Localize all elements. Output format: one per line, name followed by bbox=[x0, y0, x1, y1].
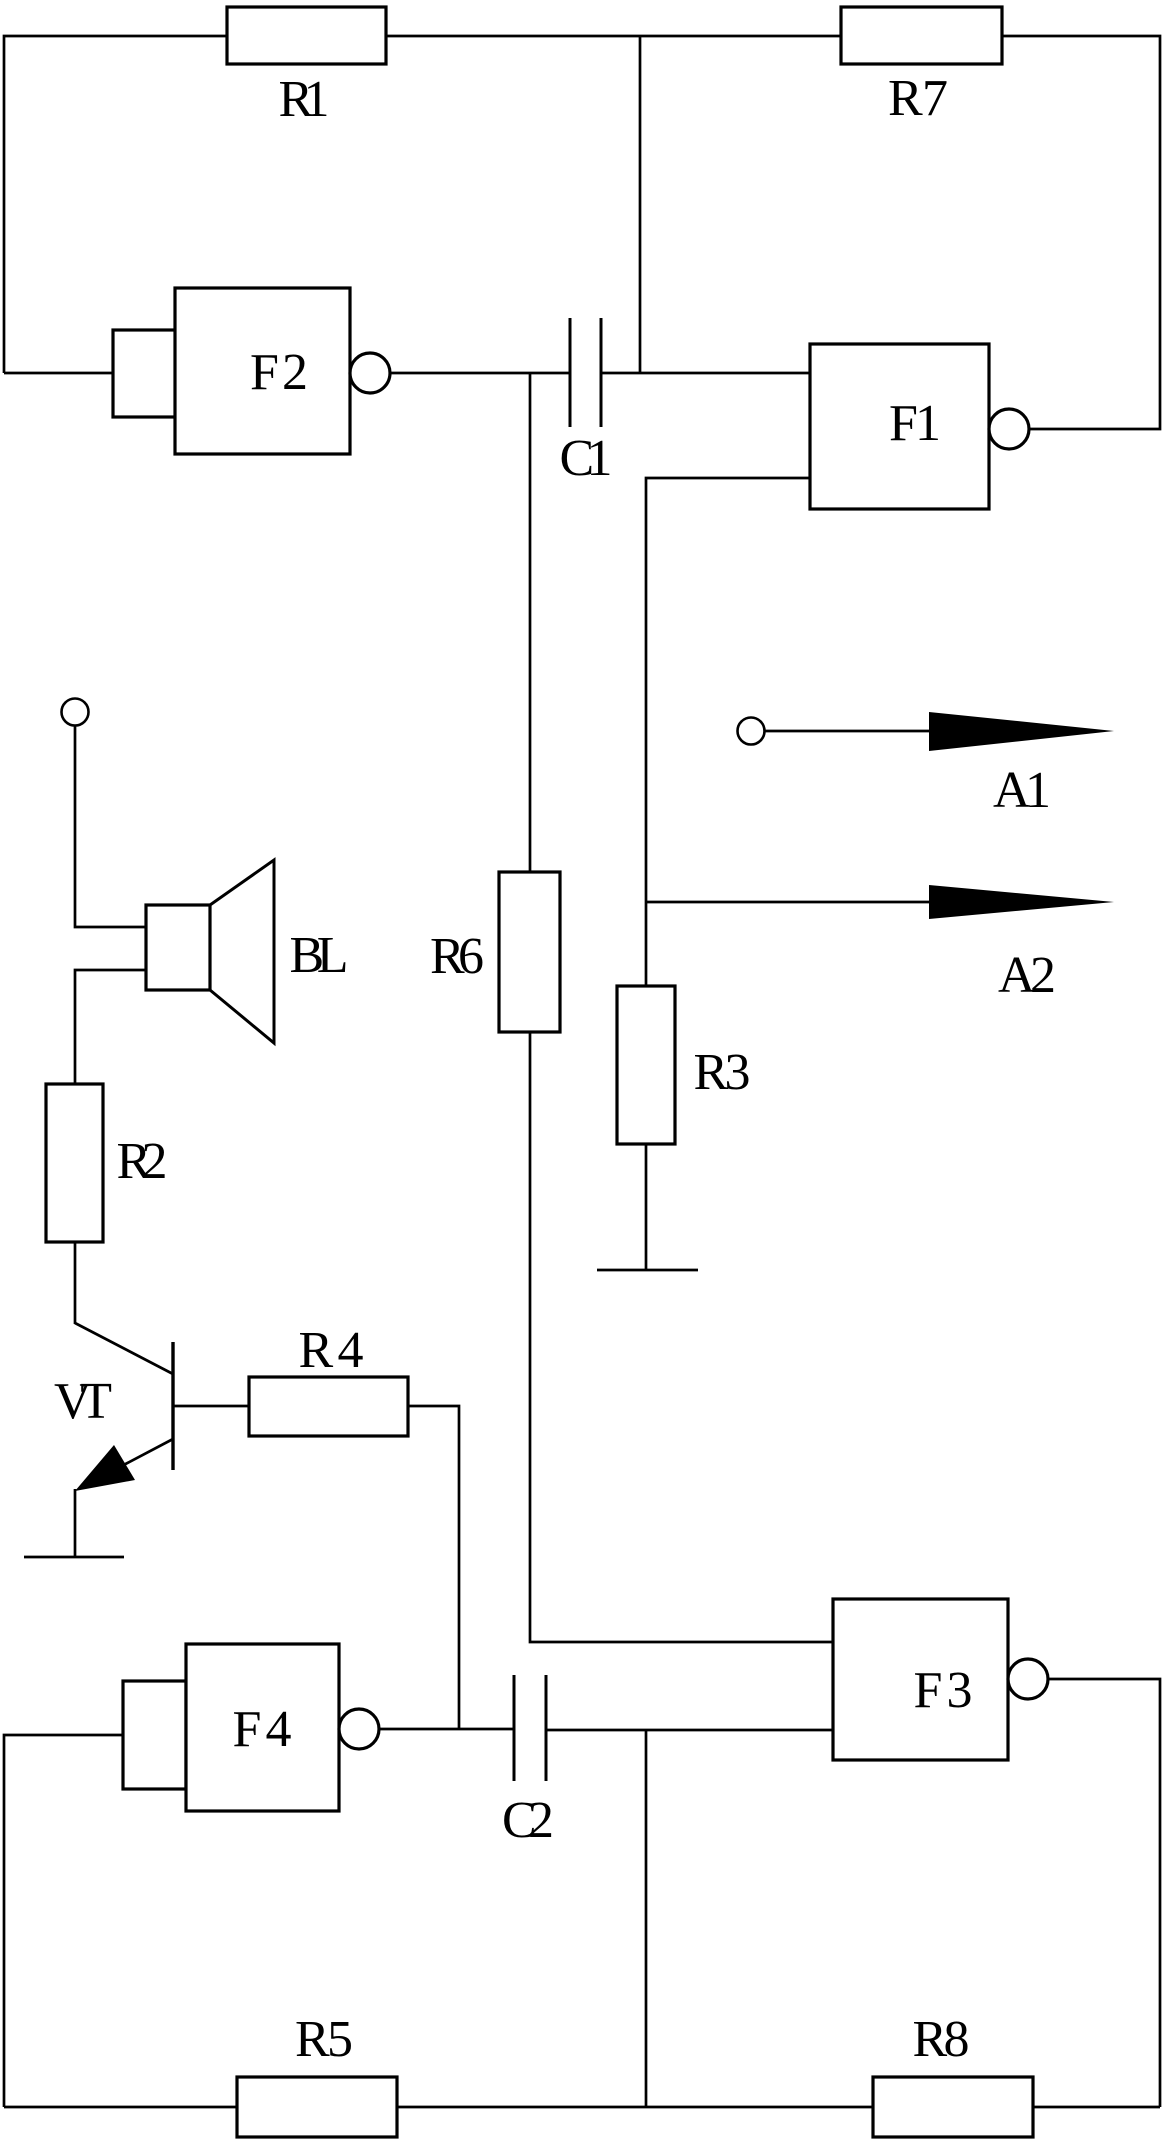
svg-text:R8: R8 bbox=[913, 2011, 970, 2068]
svg-text:BL: BL bbox=[290, 927, 349, 984]
svg-text:R5: R5 bbox=[295, 2011, 353, 2068]
svg-text:R3: R3 bbox=[694, 1044, 751, 1101]
svg-text:R6: R6 bbox=[430, 928, 484, 985]
svg-text:VT: VT bbox=[54, 1373, 112, 1430]
svg-text:R2: R2 bbox=[117, 1133, 168, 1190]
svg-text:R4: R4 bbox=[299, 1322, 364, 1379]
svg-text:A2: A2 bbox=[998, 947, 1056, 1004]
svg-text:C2: C2 bbox=[502, 1792, 554, 1849]
svg-text:C1: C1 bbox=[560, 430, 613, 487]
svg-text:R1: R1 bbox=[279, 71, 330, 128]
svg-text:F1: F1 bbox=[889, 395, 941, 452]
svg-text:R7: R7 bbox=[888, 70, 948, 127]
svg-text:A1: A1 bbox=[993, 762, 1051, 819]
